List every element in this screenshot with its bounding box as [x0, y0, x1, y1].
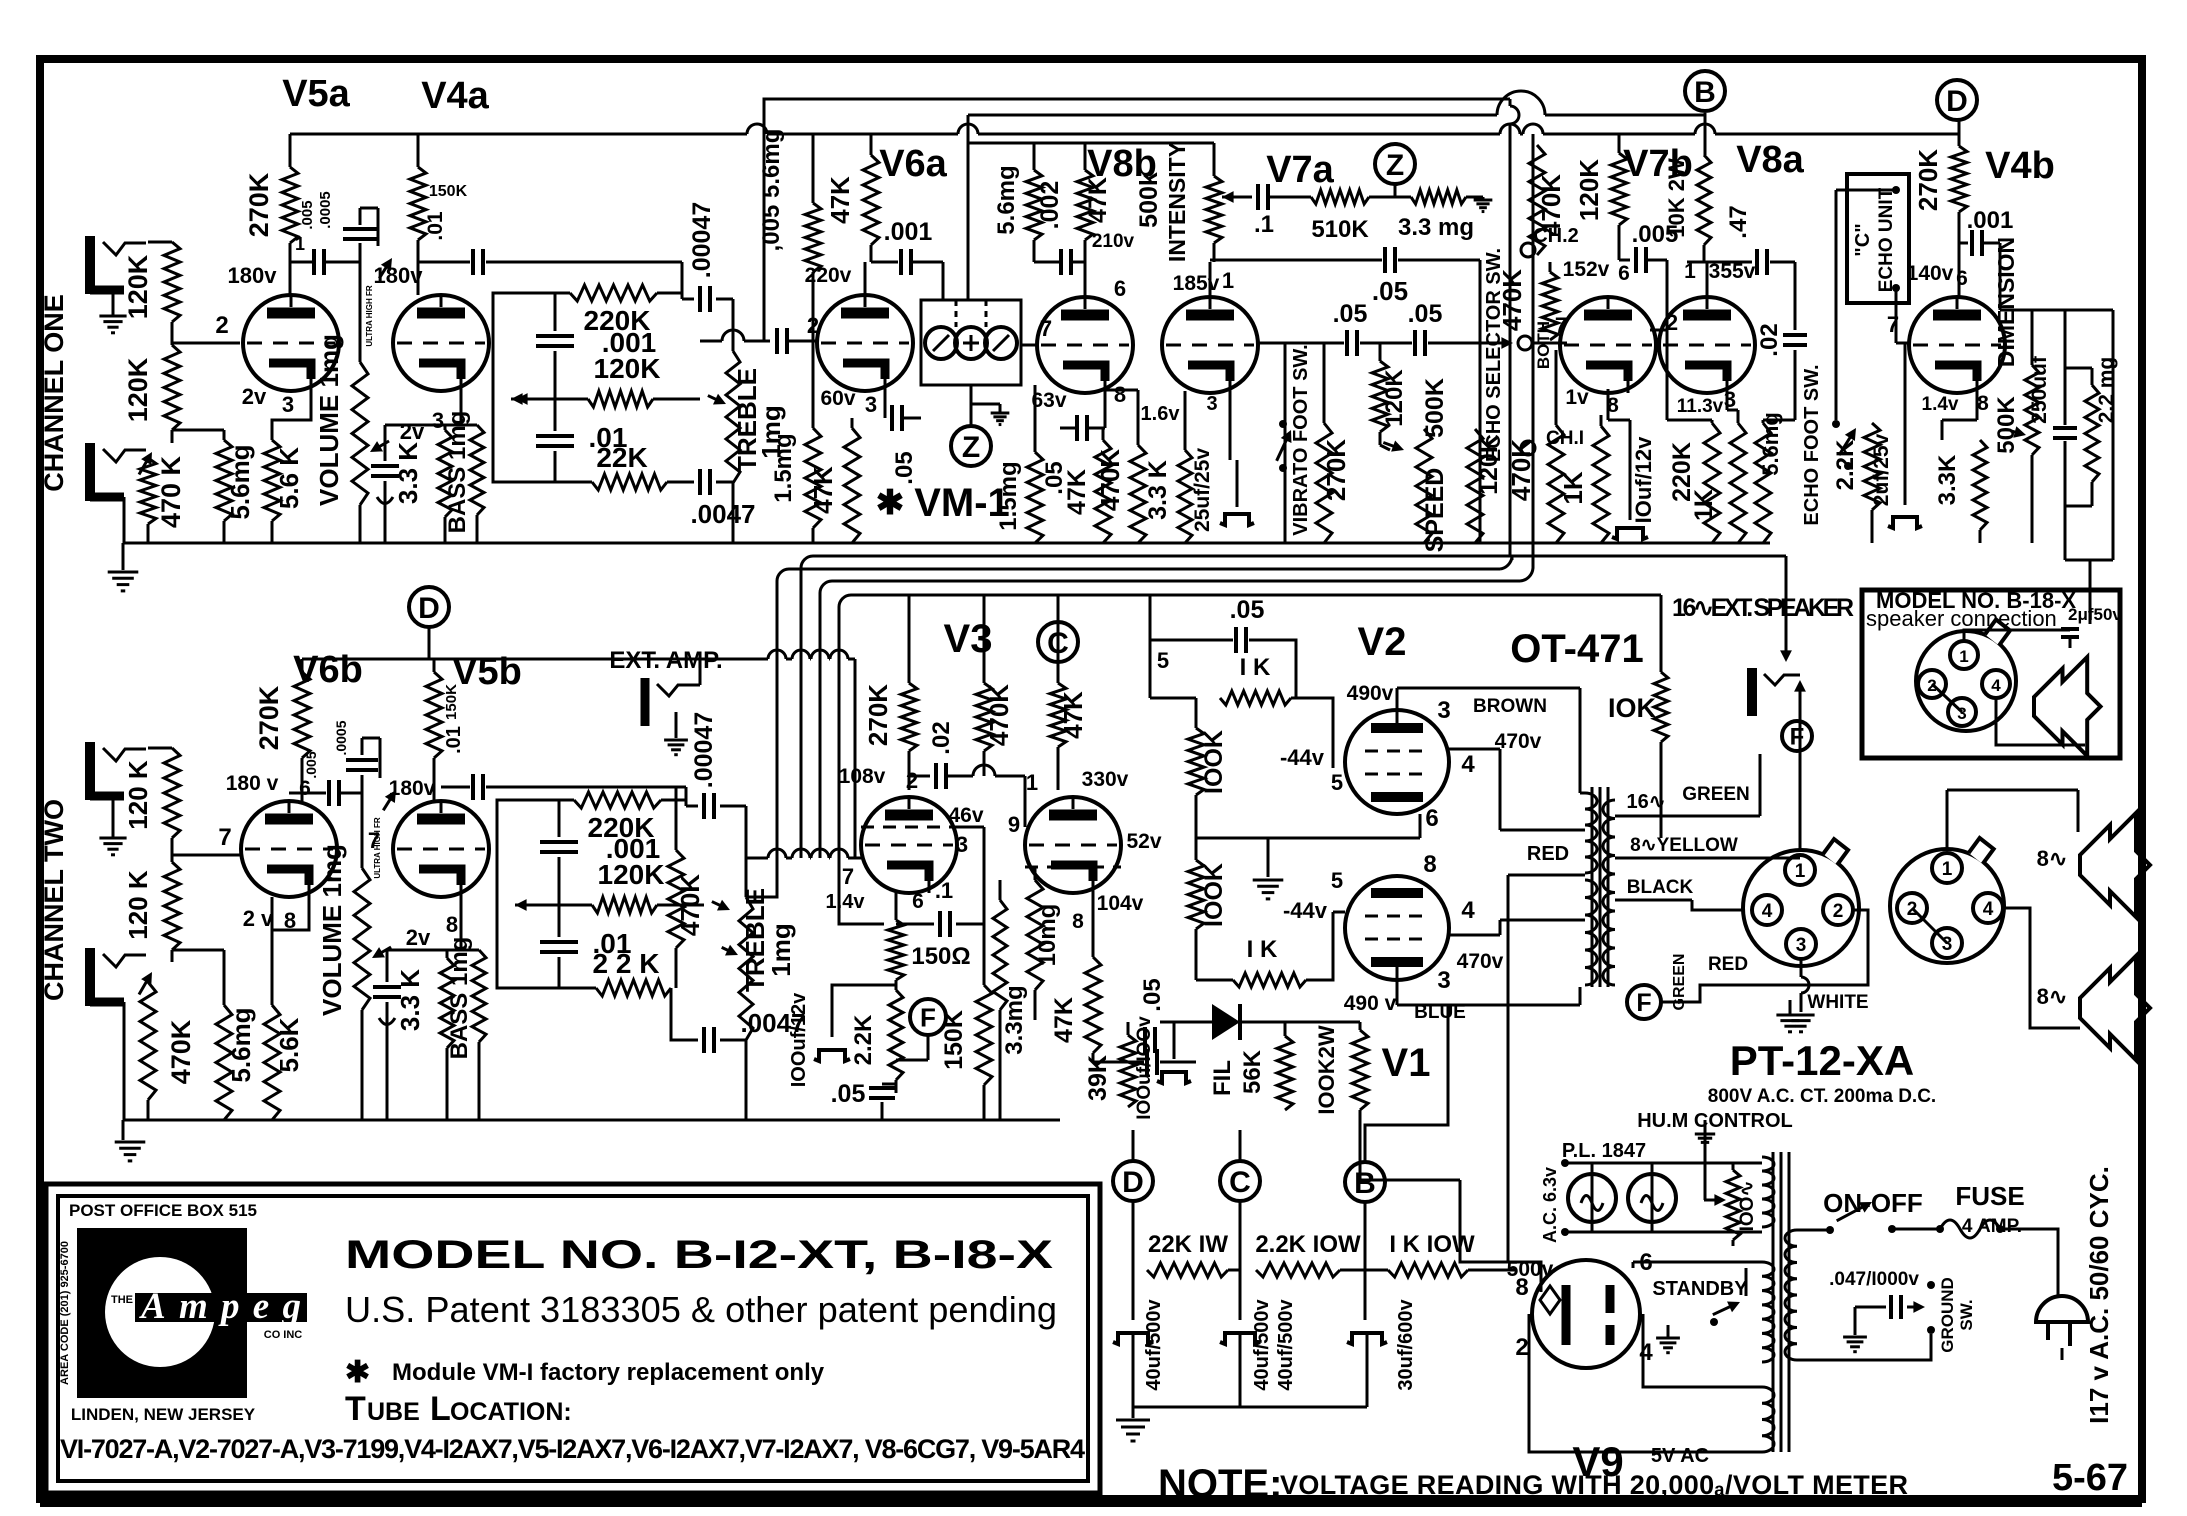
svg-text:CH.2: CH.2 — [1533, 225, 1579, 247]
wire VM-1 out — [970, 385, 973, 427]
capacitor .001 — [899, 249, 903, 275]
svg-text:180 v: 180 v — [226, 772, 279, 795]
resistor 120K — [164, 862, 180, 950]
svg-text:16∿: 16∿ — [1626, 791, 1665, 813]
capacitor .05 cathode — [884, 420, 886, 428]
wire plate to OT — [1396, 688, 1399, 710]
svg-text:1.5mg: 1.5mg — [995, 461, 1022, 530]
resistor 470K — [983, 596, 986, 683]
svg-text:✱: ✱ — [345, 1356, 370, 1389]
svg-text:1K: 1K — [1558, 471, 1588, 504]
resistor 150K plate — [433, 659, 436, 672]
resistor 510K — [1270, 196, 1311, 199]
svg-text:1.6v: 1.6v — [1141, 403, 1181, 425]
resistor 270K — [1323, 343, 1326, 423]
svg-text:,005 5.6mg: ,005 5.6mg — [758, 129, 785, 252]
switch ultra high freq 2 — [383, 795, 393, 810]
svg-text:9: 9 — [1008, 812, 1020, 837]
wire bus 143 — [968, 142, 1214, 145]
pot BASS 1mg — [472, 950, 486, 1042]
capacitor .00047 — [685, 787, 688, 806]
svg-text:355v: 355v — [1709, 260, 1756, 283]
PT heater winding — [1762, 1157, 1774, 1227]
svg-text:BLACK: BLACK — [1627, 877, 1694, 898]
resistor 47K cathode — [1095, 440, 1111, 543]
svg-text:500K: 500K — [1993, 396, 2020, 454]
svg-text:.1: .1 — [1254, 211, 1274, 238]
svg-text:150K: 150K — [429, 183, 468, 200]
resistor 120K — [164, 345, 180, 430]
svg-text:GREEN: GREEN — [1682, 784, 1750, 805]
connector 4-pin main — [1743, 850, 1859, 966]
svg-text:470v: 470v — [1457, 950, 1504, 973]
svg-text:1: 1 — [1795, 861, 1806, 882]
node D — [409, 587, 449, 627]
svg-text:120K: 120K — [123, 357, 153, 422]
svg-text:INTENSITY: INTENSITY — [1164, 142, 1190, 262]
svg-text:3: 3 — [1437, 697, 1450, 724]
resistor 100K — [1195, 795, 1198, 860]
node D — [1113, 1161, 1153, 1201]
svg-text:.05: .05 — [831, 1080, 866, 1108]
svg-text:BASS 1mg: BASS 1mg — [446, 937, 473, 1060]
pot TREBLE 1mg — [739, 897, 753, 1040]
svg-text:RED: RED — [1708, 954, 1748, 975]
resistor 3.3K cathode — [1976, 389, 1979, 420]
wire primary bottom — [1797, 1334, 1931, 1360]
svg-text:180v: 180v — [228, 263, 278, 288]
svg-text:1: 1 — [1684, 260, 1696, 283]
svg-text:3.3 K: 3.3 K — [1144, 460, 1172, 520]
resistor 47K cathode — [844, 428, 860, 543]
svg-text:.047/I000v: .047/I000v — [1829, 1269, 1919, 1290]
node Z — [951, 426, 991, 466]
svg-text:.001: .001 — [884, 218, 933, 246]
capacitor .05 — [1093, 1039, 1130, 1041]
svg-text:V2: V2 — [1358, 620, 1407, 664]
svg-text:4: 4 — [1762, 901, 1773, 922]
svg-text:I17 v A.C. 50/60 CYC.: I17 v A.C. 50/60 CYC. — [2084, 1166, 2114, 1424]
svg-text:152v: 152v — [1563, 258, 1610, 281]
svg-text:BOTH: BOTH — [1534, 321, 1553, 369]
capacitor .005 — [775, 328, 779, 354]
resistor 10K — [1660, 595, 1663, 672]
label 16ohm GREEN tap — [1615, 815, 1760, 818]
svg-text:speaker connection: speaker connection — [1866, 606, 2057, 631]
svg-text:3: 3 — [432, 408, 444, 433]
svg-text:56K: 56K — [1239, 1049, 1266, 1094]
resistor 56K — [1284, 1022, 1287, 1036]
ground — [1466, 196, 1483, 199]
svg-text:.05: .05 — [1372, 276, 1408, 306]
svg-text:.05: .05 — [1139, 978, 1166, 1011]
wire 500v — [1508, 1262, 1541, 1292]
svg-text:510K: 510K — [1311, 216, 1369, 243]
svg-text:39K: 39K — [1084, 1055, 1112, 1101]
svg-text:.001: .001 — [1967, 207, 2014, 234]
svg-text:Z: Z — [1386, 149, 1404, 182]
svg-text:40uf/500v: 40uf/500v — [1143, 1299, 1165, 1391]
resistor 5.6mg grid — [812, 134, 815, 203]
capacitor cathode bypass — [384, 425, 387, 461]
wire tone stack frame — [493, 293, 570, 399]
tube V6b — [241, 801, 337, 897]
svg-text:2v: 2v — [406, 925, 431, 950]
svg-text:8: 8 — [1114, 382, 1126, 407]
resistor 1K — [1593, 426, 1609, 543]
label BLACK tap — [1615, 899, 1692, 902]
capacitor .01 — [540, 940, 578, 944]
wire cathode feed — [839, 916, 884, 924]
resistor 1K — [1233, 973, 1306, 987]
svg-text:46v: 46v — [948, 804, 983, 827]
svg-text:500K: 500K — [1421, 378, 1449, 438]
svg-text:F: F — [1636, 989, 1651, 1017]
svg-text:CHANNEL TWO: CHANNEL TWO — [39, 799, 69, 1001]
svg-text:4: 4 — [1639, 1339, 1653, 1366]
wire bias row — [1160, 1021, 1360, 1024]
svg-text:-44v: -44v — [1283, 898, 1328, 923]
wire V9 filament loop — [1529, 1314, 1762, 1452]
svg-text:470K: 470K — [1095, 449, 1125, 511]
svg-text:3: 3 — [1957, 704, 1966, 723]
switch on-off — [1797, 1230, 1810, 1238]
capacitor .01 coupling — [441, 786, 470, 789]
resistor 100K — [1195, 698, 1198, 728]
capacitor .001 — [558, 800, 561, 837]
svg-text:.005: .005 — [303, 751, 319, 778]
svg-text:2μf50v: 2μf50v — [2068, 605, 2122, 624]
svg-text:3: 3 — [865, 392, 877, 417]
svg-text:3: 3 — [956, 832, 968, 857]
svg-text:-44v: -44v — [1280, 745, 1325, 770]
resistor 150 ohm — [888, 920, 904, 980]
resistor 220K — [570, 285, 657, 301]
svg-text:7: 7 — [368, 828, 380, 853]
resistor 120K — [148, 241, 172, 244]
capacitor .0005 — [359, 243, 362, 262]
wire row 4 — [839, 595, 1661, 916]
resistor 150K plate — [417, 134, 420, 167]
wire to V3 grid — [746, 857, 768, 860]
wire top bus A — [764, 99, 1510, 341]
svg-text:7: 7 — [218, 824, 231, 851]
svg-text:3: 3 — [282, 392, 294, 417]
resistor 47K — [1057, 662, 1060, 683]
svg-text:V5b: V5b — [452, 651, 522, 693]
svg-text:3.3 K: 3.3 K — [395, 969, 425, 1031]
svg-text:4: 4 — [1461, 751, 1475, 778]
svg-text:I K IOW: I K IOW — [1389, 1231, 1475, 1258]
svg-text:4: 4 — [1461, 897, 1475, 924]
wire grid node — [171, 838, 174, 862]
svg-text:3.3 mg: 3.3 mg — [1398, 214, 1474, 241]
svg-text:270K: 270K — [254, 685, 284, 750]
capacitor .0047 — [671, 988, 698, 1040]
capacitor .002 — [1059, 249, 1063, 275]
node B — [1685, 71, 1725, 111]
ground top — [1776, 1014, 1803, 1017]
resistor 2.2K — [889, 990, 903, 1080]
svg-text:1: 1 — [1959, 647, 1968, 666]
svg-text:120K: 120K — [123, 254, 153, 319]
plug 117v — [2032, 1294, 2058, 1296]
svg-text:120K: 120K — [594, 353, 661, 384]
resistor 22K — [596, 980, 671, 996]
svg-text:490 v: 490 v — [1344, 992, 1397, 1015]
svg-text:D: D — [418, 592, 440, 625]
svg-text:2.2K IOW: 2.2K IOW — [1255, 1231, 1361, 1258]
wire to 500v — [1360, 1110, 1460, 1180]
svg-text:IOK: IOK — [1608, 693, 1657, 723]
tube V4b — [1909, 297, 2005, 393]
pot DIMENSION 500K — [1999, 243, 2002, 310]
svg-text:.01: .01 — [424, 211, 447, 241]
svg-text:4: 4 — [1991, 676, 2001, 695]
connector 4-pin second — [1890, 849, 2004, 963]
ground — [99, 837, 126, 840]
svg-text:250uuf: 250uuf — [2028, 355, 2051, 424]
svg-text:52v: 52v — [1126, 830, 1161, 853]
svg-text:GROUND: GROUND — [1938, 1277, 1957, 1353]
svg-text:5: 5 — [1331, 868, 1343, 893]
pot TREBLE 1mg — [732, 299, 735, 351]
capacitor .0047 — [667, 481, 694, 484]
capacitor .005 coupling — [312, 249, 316, 275]
svg-text:3: 3 — [1942, 934, 1953, 955]
svg-text:1.5mg: 1.5mg — [770, 433, 797, 502]
capacitor 2uf/25v — [1895, 288, 1898, 343]
PT primary winding — [1785, 1230, 1797, 1360]
svg-text:1.4v: 1.4v — [826, 891, 866, 913]
wire row 3 — [820, 581, 1520, 858]
svg-text:7: 7 — [1040, 316, 1052, 341]
switch ultra high freq — [379, 263, 389, 278]
resistor 3.3K cathode — [1184, 391, 1187, 450]
wire top feed — [1149, 595, 1152, 698]
box echo unit C — [1847, 174, 1909, 303]
fuse link — [1940, 1220, 2000, 1238]
svg-text:IOOK: IOOK — [1200, 863, 1228, 927]
svg-text:120K: 120K — [598, 859, 665, 890]
node F — [910, 999, 946, 1035]
resistor 270K plate — [289, 134, 292, 167]
pot VOLUME 1mg — [359, 262, 362, 362]
wire echo selector — [1479, 343, 1482, 543]
svg-text:.05: .05 — [1230, 596, 1265, 624]
svg-text:16∿EXT. SPEAKER: 16∿EXT. SPEAKER — [1672, 594, 1854, 622]
svg-text:63v: 63v — [1031, 389, 1066, 412]
svg-text:L: L — [430, 1390, 451, 1428]
wire ground bus 2 — [123, 1119, 1060, 1122]
transistor Q2 — [955, 327, 987, 359]
svg-text:2.2K: 2.2K — [850, 1014, 877, 1065]
input jack J2 — [85, 443, 95, 501]
tube V1 output — [1345, 876, 1449, 980]
svg-text:210v: 210v — [1092, 231, 1135, 252]
svg-text:3: 3 — [1206, 393, 1217, 415]
svg-text:RED: RED — [1527, 843, 1569, 865]
svg-text:47K: 47K — [825, 176, 855, 224]
wire top bus C — [290, 133, 747, 136]
wire .05 row — [1210, 259, 1382, 262]
wire to speaker box — [2065, 309, 2113, 312]
speaker 8ohm bottom — [2080, 956, 2150, 1060]
tube V2 — [1345, 710, 1449, 814]
transistor Q1 — [925, 327, 957, 359]
svg-text:108v: 108v — [839, 765, 886, 788]
wire stems — [1132, 1201, 1135, 1270]
svg-text:FUSE: FUSE — [1955, 1181, 2024, 1211]
diode — [1212, 1004, 1240, 1040]
wire to 8ohm speakers — [2003, 908, 2080, 1028]
resistor 220K — [1666, 330, 1668, 423]
svg-text:IOOuf/12v: IOOuf/12v — [788, 992, 810, 1087]
svg-text:NOTE:: NOTE: — [1158, 1462, 1282, 1506]
input jack J1 — [85, 236, 95, 294]
svg-text:V9: V9 — [1572, 1438, 1623, 1485]
svg-text:IOOK: IOOK — [1200, 730, 1228, 794]
svg-text:AREA CODE (201) 925-6700: AREA CODE (201) 925-6700 — [59, 1241, 71, 1385]
tube V8b — [1037, 297, 1133, 393]
resistor 120K — [588, 391, 653, 407]
resistor 5.6mg — [223, 950, 226, 1005]
transformer PT core — [1772, 1152, 1775, 1452]
capacitor .02 — [1794, 262, 1797, 330]
svg-text:220v: 220v — [805, 264, 852, 287]
svg-text:3.3 K: 3.3 K — [393, 442, 423, 504]
resistor 5.6K — [271, 436, 274, 440]
svg-text:800V A.C. CT. 200ma D.C.: 800V A.C. CT. 200ma D.C. — [1708, 1086, 1936, 1107]
svg-text:IOOuf/IOOv: IOOuf/IOOv — [1134, 1016, 1155, 1120]
svg-text:25uf/25v: 25uf/25v — [1191, 448, 1214, 532]
svg-text:47K: 47K — [1050, 997, 1078, 1043]
resistor 120K — [148, 747, 172, 750]
label 8ohm YELLOW tap — [1615, 857, 1800, 860]
svg-text:2uf/25v: 2uf/25v — [1870, 433, 1893, 506]
svg-text:40uf/500v: 40uf/500v — [1251, 1299, 1273, 1391]
svg-text:5V AC: 5V AC — [1651, 1445, 1709, 1467]
resistor 270K plate — [1958, 120, 1961, 146]
wire pin6 — [1632, 1262, 1635, 1268]
resistor 100K2W — [1359, 1022, 1362, 1030]
svg-text:IOOK2W: IOOK2W — [1314, 1025, 1339, 1114]
svg-text:5.6mg: 5.6mg — [993, 165, 1020, 234]
svg-text:11.3v: 11.3v — [1677, 396, 1724, 417]
resistor 3.3K — [460, 391, 463, 425]
node F — [1782, 721, 1812, 751]
capacitor .01 coupling — [471, 249, 475, 275]
standby switch — [1656, 1337, 1680, 1340]
svg-text:V6a: V6a — [879, 143, 947, 185]
tube V3b — [1025, 797, 1121, 893]
svg-text:3.3K: 3.3K — [1934, 454, 1961, 505]
wire grid row caps — [1258, 342, 1344, 345]
svg-text:F: F — [1790, 724, 1805, 751]
svg-text:D: D — [1946, 85, 1968, 118]
svg-text:✱: ✱ — [876, 484, 905, 522]
capacitor cathode bypass 2 — [386, 950, 389, 982]
svg-text:VIBRATO FOOT SW.: VIBRATO FOOT SW. — [1290, 344, 1312, 535]
svg-text:1: 1 — [1222, 268, 1234, 293]
capacitor .0005 — [361, 775, 364, 793]
svg-text:2.2K: 2.2K — [1832, 439, 1859, 490]
resistor 1K — [1730, 423, 1746, 543]
rectifier V9 — [1532, 1260, 1640, 1368]
svg-text:6: 6 — [1618, 262, 1630, 285]
svg-text:8: 8 — [446, 912, 458, 937]
capacitor .00047 — [681, 262, 684, 299]
svg-text:.47: .47 — [1725, 205, 1752, 238]
svg-text:.0047: .0047 — [690, 499, 755, 529]
svg-text:470 K: 470 K — [156, 455, 186, 528]
svg-text:V4a: V4a — [421, 75, 489, 117]
svg-text:F: F — [920, 1002, 936, 1032]
svg-text:1: 1 — [1942, 859, 1953, 880]
svg-text:WHITE: WHITE — [1807, 992, 1868, 1013]
svg-text:PT-12-XA: PT-12-XA — [1730, 1037, 1914, 1084]
svg-text:1K: 1K — [1690, 489, 1718, 521]
resistor 150K — [983, 960, 986, 985]
svg-text:P.L. 1847: P.L. 1847 — [1562, 1140, 1646, 1162]
svg-text:U.S. Patent 3183305 & other pa: U.S. Patent 3183305 & other patent pendi… — [345, 1289, 1057, 1330]
hum pot 100ohm — [1695, 1133, 1715, 1136]
tube V7a — [1162, 297, 1258, 393]
svg-text:5.6K: 5.6K — [274, 1017, 304, 1072]
svg-text:CHANNEL ONE: CHANNEL ONE — [39, 294, 69, 492]
svg-text:GREEN: GREEN — [1671, 954, 1688, 1011]
svg-text:150K: 150K — [443, 684, 460, 720]
svg-text:1mg: 1mg — [766, 923, 796, 976]
svg-text:5: 5 — [1157, 648, 1169, 673]
resistor 3.3mg — [993, 900, 1007, 1010]
svg-text:Z: Z — [962, 431, 980, 464]
svg-text:.05: .05 — [891, 451, 918, 484]
svg-text:270K: 270K — [863, 684, 893, 746]
capacitor .05 — [869, 1086, 895, 1090]
resistor 47K plate — [870, 134, 873, 155]
capacitor .047/1000v — [1855, 1306, 1886, 1309]
svg-text:185v: 185v — [1173, 272, 1220, 295]
wire cathode ground — [1196, 837, 1420, 840]
capacitor .05 cathode — [1104, 391, 1107, 428]
svg-text:VI-7027-A,V2-7027-A,V3-7199,V4: VI-7027-A,V2-7027-A,V3-7199,V4-I2AX7,V5-… — [60, 1434, 1085, 1464]
wire pin1 feed — [1964, 630, 2070, 642]
wire grid node — [171, 322, 174, 345]
svg-text:8: 8 — [1072, 910, 1084, 933]
input jack J4 — [85, 948, 95, 1006]
svg-text:270K: 270K — [1913, 149, 1943, 211]
svg-text:D: D — [1122, 1166, 1144, 1199]
svg-text:5-67: 5-67 — [2052, 1457, 2128, 1499]
svg-text:Module VM-I factory replace: Module VM-I factory replacement only — [392, 1359, 825, 1386]
svg-text:140v: 140v — [1907, 262, 1954, 285]
pot 470K — [139, 977, 149, 994]
wire to V6a grid — [700, 340, 722, 343]
resistor 470K — [675, 787, 678, 850]
wire vibrato verticals — [1509, 99, 1512, 106]
svg-text:3.3mg: 3.3mg — [1001, 985, 1028, 1054]
tube V5a — [243, 295, 339, 391]
svg-text:SPEED: SPEED — [1421, 468, 1449, 553]
svg-text:10K 2W: 10K 2W — [1664, 158, 1689, 238]
svg-text:330v: 330v — [1082, 768, 1129, 791]
svg-text:.00047: .00047 — [690, 712, 718, 788]
ground — [99, 315, 126, 318]
wire RED loop — [1662, 910, 1868, 1002]
resistor 1.5mg — [812, 341, 815, 428]
svg-text:6: 6 — [912, 890, 924, 913]
